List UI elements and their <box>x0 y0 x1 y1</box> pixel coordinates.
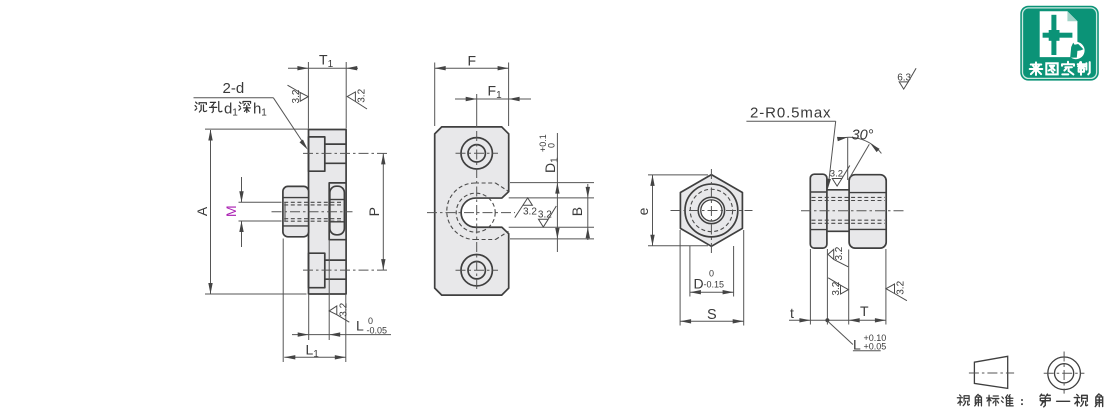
svg-text:3.2: 3.2 <box>831 281 842 295</box>
svg-text:M: M <box>223 205 239 217</box>
svg-text:3.2: 3.2 <box>896 280 907 294</box>
svg-text:d: d <box>224 101 232 118</box>
svg-text:2-d: 2-d <box>223 80 245 97</box>
svg-text:-0.15: -0.15 <box>704 280 725 290</box>
svg-text:D: D <box>694 276 704 292</box>
svg-text:2-R0.5max: 2-R0.5max <box>750 105 831 122</box>
svg-text:L: L <box>853 337 861 353</box>
svg-text:3.2: 3.2 <box>538 209 552 220</box>
svg-text:3.2: 3.2 <box>357 88 368 102</box>
svg-text:1: 1 <box>232 108 238 119</box>
svg-text:B: B <box>569 207 585 216</box>
svg-text:F: F <box>468 53 477 69</box>
svg-text:L: L <box>356 318 364 334</box>
svg-text:T: T <box>860 303 869 319</box>
svg-text:3.2: 3.2 <box>338 302 349 316</box>
svg-text:3.2: 3.2 <box>291 89 302 103</box>
svg-text:t: t <box>790 305 794 321</box>
svg-text:S: S <box>707 307 717 323</box>
svg-text:3.2: 3.2 <box>834 246 845 260</box>
svg-text:0: 0 <box>709 269 714 279</box>
svg-text:-0.05: -0.05 <box>367 326 388 336</box>
svg-text:3.2: 3.2 <box>830 169 843 180</box>
svg-text:3.2: 3.2 <box>523 207 537 218</box>
svg-text:h: h <box>253 101 261 118</box>
svg-text:P: P <box>366 207 382 216</box>
svg-text:30°: 30° <box>852 128 874 144</box>
svg-text:0: 0 <box>547 143 557 148</box>
svg-text:A: A <box>194 206 210 216</box>
svg-text:1: 1 <box>261 108 267 119</box>
svg-text:e: e <box>635 207 651 215</box>
svg-text:+0.05: +0.05 <box>864 342 887 352</box>
svg-text:0: 0 <box>368 316 373 326</box>
